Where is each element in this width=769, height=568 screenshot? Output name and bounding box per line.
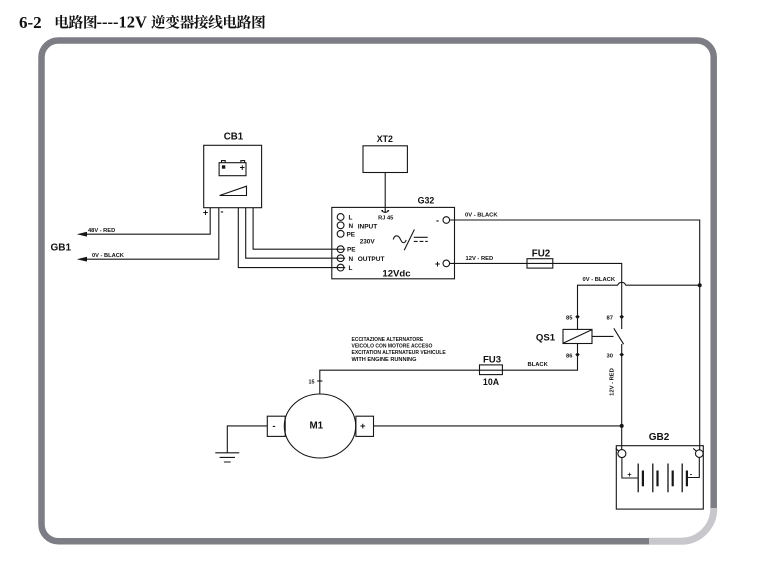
svg-text:87: 87 bbox=[607, 315, 613, 321]
border frame bbox=[42, 41, 714, 542]
arrow GB1 0V bbox=[77, 257, 87, 262]
ramp symbol in CB1 bbox=[220, 186, 247, 195]
QS1 terminal dot 86 bbox=[575, 352, 580, 357]
QS1 switch blade bbox=[614, 328, 624, 344]
svg-text:+: + bbox=[627, 470, 632, 479]
GB2 right screw terminal bbox=[696, 450, 704, 458]
component FU3 fuse bbox=[480, 365, 503, 375]
svg-text:85: 85 bbox=[566, 315, 573, 321]
svg-text:-: - bbox=[436, 216, 439, 226]
component CB1 box bbox=[204, 145, 262, 207]
G32 plus output circle bbox=[443, 260, 450, 267]
svg-text:0V - BLACK: 0V - BLACK bbox=[583, 277, 616, 283]
svg-text:0V - BLACK: 0V - BLACK bbox=[465, 213, 498, 219]
svg-text:0V - BLACK: 0V - BLACK bbox=[92, 253, 125, 259]
svg-text:G32: G32 bbox=[418, 196, 435, 206]
svg-text:+: + bbox=[203, 208, 208, 218]
GB2 internal wire minus bbox=[687, 457, 699, 477]
title chinese glyphs bbox=[56, 15, 265, 29]
ground symbol bbox=[215, 453, 239, 462]
svg-text:15: 15 bbox=[309, 380, 315, 386]
svg-text:-: - bbox=[221, 207, 224, 217]
svg-text:N: N bbox=[349, 223, 354, 230]
wire 12V RED from G32 to FU2 bbox=[450, 263, 622, 329]
svg-text:M1: M1 bbox=[309, 421, 323, 432]
svg-text:-: - bbox=[272, 421, 275, 432]
svg-text:230V: 230V bbox=[360, 238, 376, 245]
G32 output terminal L bbox=[337, 264, 344, 271]
component XT2 box bbox=[363, 146, 407, 173]
svg-text:N: N bbox=[349, 256, 354, 263]
wire 0V BLACK branch with hop bbox=[578, 282, 700, 317]
svg-text:RJ 45: RJ 45 bbox=[378, 215, 393, 221]
QS1 terminal dot 85 bbox=[575, 315, 580, 320]
G32 input terminal N bbox=[337, 222, 344, 229]
component GB2 box bbox=[616, 446, 703, 509]
wire QS1 coil bottom 86 to FU3 bbox=[320, 344, 578, 395]
junction dot at 0V vertical bbox=[698, 283, 702, 287]
svg-text:PE: PE bbox=[347, 247, 356, 254]
svg-text:ECCITAZIONE ALTERNATORE: ECCITAZIONE ALTERNATORE bbox=[352, 337, 424, 343]
QS1 mechanical link bbox=[592, 335, 614, 337]
border frame light corner bottom-right bbox=[649, 508, 714, 541]
wire CB1 + to GB1 48V RED bbox=[80, 208, 210, 235]
svg-text:12V - RED: 12V - RED bbox=[610, 368, 616, 396]
svg-text:+: + bbox=[435, 259, 440, 269]
G32 AC/DC symbol slash bbox=[404, 230, 414, 251]
battery symbol in CB1 bbox=[219, 163, 246, 176]
G32 input terminal PE bbox=[337, 230, 344, 237]
QS1 terminal dot 30 bbox=[619, 352, 624, 357]
G32 AC/DC symbol sine bbox=[393, 236, 406, 243]
GB2 internal wire plus bbox=[622, 458, 638, 478]
wire QS1 coil top to 85 bbox=[577, 317, 579, 330]
QS1 coil diagonal bbox=[564, 330, 592, 343]
svg-text:BLACK: BLACK bbox=[528, 362, 549, 368]
svg-text:48V - RED: 48V - RED bbox=[88, 228, 115, 234]
G32 AC/DC symbol dc lines bbox=[414, 237, 428, 241]
svg-text:10A: 10A bbox=[483, 377, 500, 387]
G32 output terminal N bbox=[337, 255, 344, 262]
svg-text:FU2: FU2 bbox=[532, 249, 551, 260]
wire M1 minus to ground bbox=[227, 426, 267, 453]
svg-text:+: + bbox=[240, 163, 245, 173]
svg-text:GB1: GB1 bbox=[51, 242, 72, 253]
svg-text:86: 86 bbox=[566, 353, 573, 359]
wire switch 30 down to GB2 bbox=[621, 344, 623, 450]
svg-text:6-2: 6-2 bbox=[19, 13, 42, 32]
GB2 cell 2 bbox=[652, 464, 654, 493]
wire CB1 to G32 PE bbox=[253, 208, 337, 250]
svg-text:L: L bbox=[349, 214, 353, 221]
svg-text:L: L bbox=[349, 265, 353, 272]
svg-text:12Vdc: 12Vdc bbox=[382, 269, 411, 280]
arrow GB1 48V bbox=[77, 232, 87, 237]
wire CB1 to G32 N bbox=[246, 208, 338, 259]
battery left mark bbox=[222, 165, 225, 168]
wire CB1 to G32 L bbox=[238, 208, 337, 268]
svg-text:EXCITATION ALTERNATEUR VEHICUL: EXCITATION ALTERNATEUR VEHICULE bbox=[352, 350, 447, 356]
svg-text:PE: PE bbox=[347, 231, 356, 238]
svg-text:12V - RED: 12V - RED bbox=[466, 256, 494, 262]
svg-text:----12V: ----12V bbox=[97, 13, 147, 32]
svg-text:QS1: QS1 bbox=[536, 332, 556, 343]
component QS1 coil box bbox=[563, 329, 592, 343]
svg-text:WITH ENGINE RUNNING: WITH ENGINE RUNNING bbox=[352, 357, 417, 363]
component M1 motor circle bbox=[284, 394, 355, 458]
svg-text:FU3: FU3 bbox=[483, 355, 501, 366]
G32 input terminal L bbox=[337, 214, 344, 221]
svg-text:INPUT: INPUT bbox=[358, 224, 378, 231]
wire CB1 - to GB1 0V BLACK bbox=[80, 208, 219, 260]
GB2 cell 3 bbox=[667, 464, 669, 493]
G32 output terminal PE bbox=[337, 246, 344, 253]
junction dot at 12V vertical M1 bbox=[620, 424, 624, 428]
QS1 terminal dot 87 bbox=[619, 315, 624, 320]
svg-text:XT2: XT2 bbox=[377, 134, 393, 144]
svg-text:30: 30 bbox=[607, 353, 613, 359]
M1 right terminal box bbox=[356, 416, 374, 436]
wire XT2 to G32 RJ45 bbox=[384, 173, 386, 211]
M1 left terminal box bbox=[267, 416, 285, 436]
GB2 left screw terminal bbox=[618, 450, 626, 458]
svg-text:OUTPUT: OUTPUT bbox=[358, 256, 385, 263]
G32 minus output circle bbox=[443, 217, 450, 224]
svg-text:VEICOLO CON MOTORE ACCESO: VEICOLO CON MOTORE ACCESO bbox=[352, 344, 433, 350]
GB2 cell 1 bbox=[637, 464, 639, 493]
component FU2 fuse bbox=[527, 259, 553, 268]
svg-text:GB2: GB2 bbox=[649, 432, 670, 443]
wire M1 plus to GB2 bbox=[374, 425, 622, 427]
wire 0V BLACK from G32 to right bbox=[450, 220, 700, 450]
svg-text:CB1: CB1 bbox=[224, 131, 244, 142]
svg-text:+: + bbox=[360, 421, 366, 432]
GB2 cell 4 bbox=[681, 464, 683, 493]
M1 terminal 15 tick bbox=[317, 380, 322, 382]
component G32 box bbox=[332, 207, 455, 278]
RJ45 connector symbol bbox=[381, 211, 389, 213]
